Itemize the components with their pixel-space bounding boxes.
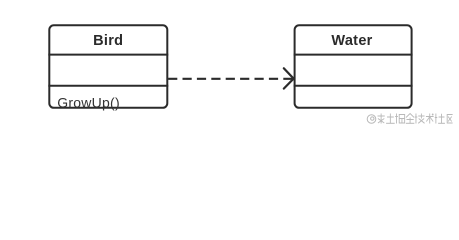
divider line Bird attributes (48, 54, 168, 56)
glyph 技 (415, 114, 425, 124)
glyph 金 (406, 114, 415, 124)
glyph 区 (447, 115, 452, 124)
class box Water (295, 25, 412, 108)
divider line Water attributes (294, 54, 413, 56)
glyph 术 (426, 114, 434, 124)
svg-text:GrowUp(): GrowUp() (57, 94, 120, 110)
arrowhead open V (284, 68, 294, 88)
divider line Water methods (294, 85, 413, 87)
dashed dependency arrow Bird to Water (168, 78, 294, 80)
watermark @稀土掘金技术社区 (vector approximation) (367, 114, 452, 124)
glyph 土 (386, 114, 395, 124)
svg-text:Bird: Bird (93, 33, 123, 49)
glyph 社 (435, 114, 445, 124)
class box Bird (49, 25, 167, 108)
divider line Bird methods (48, 85, 168, 87)
glyph 稀 (378, 114, 385, 124)
glyph 掘 (395, 114, 405, 124)
@ glyph (367, 115, 376, 124)
svg-text:Water: Water (331, 33, 372, 49)
